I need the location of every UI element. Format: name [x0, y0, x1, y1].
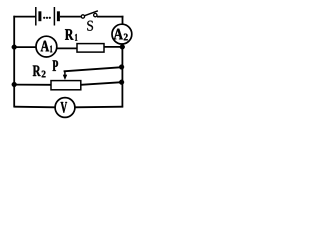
- wire: left rail to A1: [14, 46, 36, 48]
- battery plate long 1: [35, 7, 37, 26]
- battery plate short 1: [38, 11, 41, 21]
- battery plate short 2: [57, 11, 60, 21]
- rheostat R2 (box): [51, 81, 81, 90]
- wire: V to bottom-right corner: [75, 106, 123, 109]
- ammeter A1: [36, 36, 57, 57]
- battery plate long 2: [53, 7, 55, 26]
- wire: left rail to R2 box: [14, 84, 51, 86]
- label R2: [33, 66, 41, 76]
- label R2 subscript: [42, 71, 46, 78]
- switch contact left: [81, 15, 84, 18]
- label R1 subscript: [75, 34, 77, 41]
- background: [0, 0, 140, 122]
- label P: [53, 60, 58, 70]
- wire: A2 to right rail junction and down right rail to bottom corner: [121, 44, 123, 108]
- wire: top rail left segment (corner to battery): [13, 16, 35, 18]
- switch contact right: [94, 13, 97, 16]
- wire: bottom rail left segment (corner to V): [14, 106, 55, 109]
- label R1: [65, 29, 73, 39]
- switch blade: [85, 11, 98, 16]
- wire: slider to right rail (slightly sloped as in source): [64, 67, 122, 71]
- switch S: [81, 11, 98, 18]
- wire: switch to top-right corner: [97, 16, 124, 18]
- node: left rail / R2 row junction: [12, 82, 17, 87]
- resistor R1 (box): [77, 44, 104, 53]
- wire: R1 box to right rail: [104, 46, 122, 48]
- battery dots: [43, 17, 45, 19]
- node: right rail / R1 row junction: [120, 45, 125, 50]
- wire: top-right corner down to A2: [122, 16, 124, 25]
- node: right rail / R2 row junction: [119, 80, 124, 85]
- node: left rail / A1 row junction: [12, 45, 17, 50]
- rheostat slider arrow (vertical + arrowhead): [63, 71, 67, 80]
- wire: left rail (top-left corner down to bottom-left corner): [13, 16, 15, 108]
- wire: battery to switch: [60, 16, 81, 18]
- ammeter A2: [112, 24, 132, 44]
- wire: R2 box to right rail (slightly sloped as in source): [81, 82, 122, 85]
- battery (two cells with dots): [36, 7, 59, 26]
- label S: [87, 21, 93, 31]
- voltmeter V: [55, 98, 75, 118]
- node: right rail / slider row junction: [119, 65, 124, 70]
- wire: A1 to R1 box: [57, 47, 77, 49]
